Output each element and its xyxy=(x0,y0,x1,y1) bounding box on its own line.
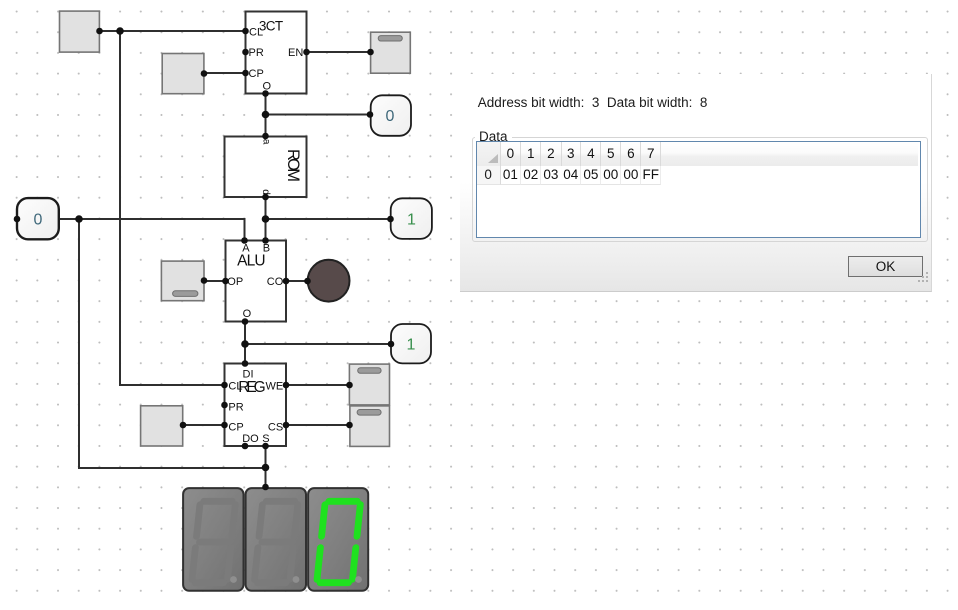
svg-text:CP: CP xyxy=(228,422,243,434)
svg-text:a: a xyxy=(261,139,272,145)
svg-text:O: O xyxy=(243,308,252,320)
svg-text:OP: OP xyxy=(227,276,243,288)
svg-text:EN: EN xyxy=(288,47,303,59)
svg-text:CP: CP xyxy=(249,68,264,80)
svg-text:CO: CO xyxy=(267,276,284,288)
svg-text:3CT: 3CT xyxy=(259,18,283,33)
svg-text:WE: WE xyxy=(265,380,283,392)
svg-text:0: 0 xyxy=(386,108,395,125)
svg-text:1: 1 xyxy=(407,337,416,354)
svg-text:ROM: ROM xyxy=(284,149,302,182)
svg-text:ALU: ALU xyxy=(237,252,266,269)
svg-text:PR: PR xyxy=(249,47,264,59)
svg-text:1: 1 xyxy=(407,212,416,229)
svg-text:0: 0 xyxy=(34,212,43,229)
svg-text:REG: REG xyxy=(238,379,266,396)
svg-text:CS: CS xyxy=(268,422,283,434)
svg-text:PR: PR xyxy=(228,401,243,413)
